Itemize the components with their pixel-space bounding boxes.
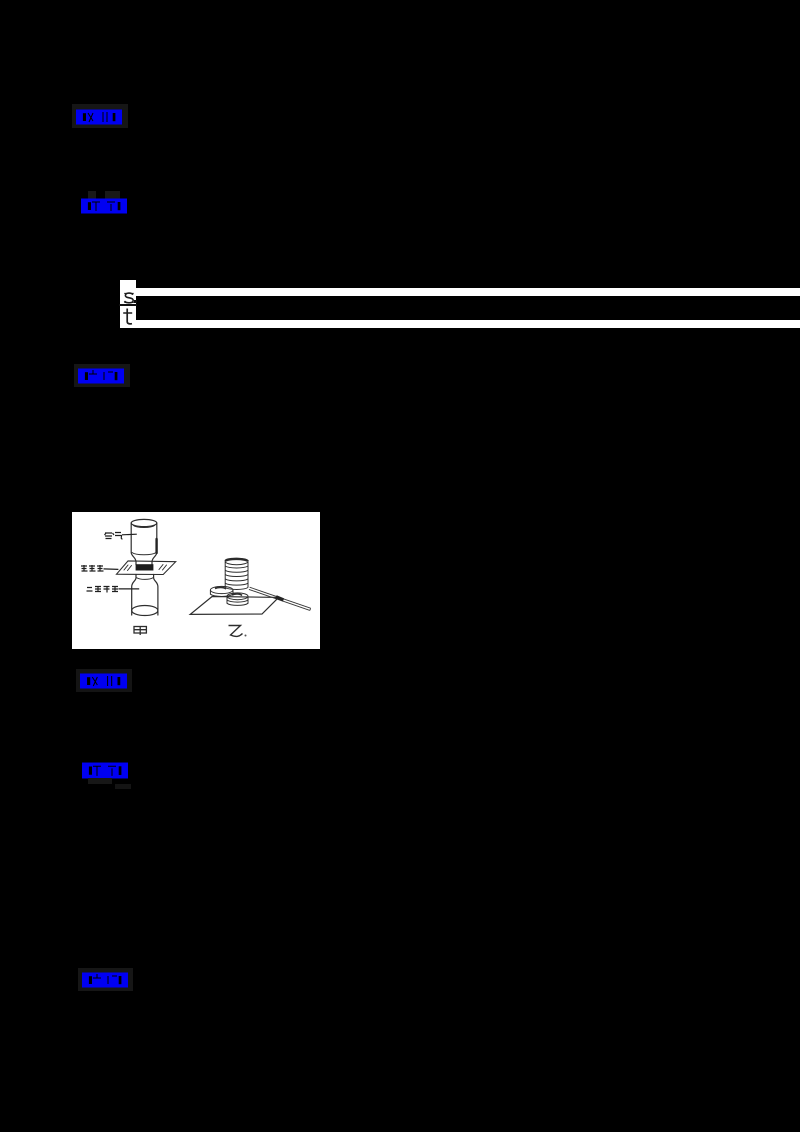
blue label 2 (解答) — [81, 198, 127, 214]
left single checker — [210, 586, 233, 596]
fraction denominator t — [122, 307, 136, 325]
label 甲 — [134, 626, 146, 635]
coin stack — [225, 558, 248, 589]
blue label 3 (点评) — [78, 368, 124, 384]
paper sheet — [190, 596, 278, 614]
blue label 1 (分析) — [76, 109, 122, 125]
label halo 1 — [72, 104, 128, 128]
label 二氧化氮 + pointer — [87, 586, 140, 593]
ruler — [249, 587, 311, 610]
artifact mark below label 5 — [88, 778, 112, 784]
top bottle (air) — [131, 519, 157, 526]
white stripe bottom (line highlight) — [136, 320, 800, 327]
bottle mouth dark band — [136, 564, 154, 570]
label 乙. — [229, 625, 247, 636]
fraction bar — [119, 304, 137, 306]
experiment figure: white image box — [72, 512, 320, 649]
label 空气 — [105, 532, 137, 539]
bottom bottle (NO2) — [132, 574, 136, 615]
label 玻璃板 + pointer — [81, 565, 118, 571]
dot after s — [134, 300, 137, 303]
artifact mark 2 below label 5 — [115, 784, 131, 789]
fraction numerator s — [122, 291, 136, 304]
lower checker stack — [227, 592, 248, 605]
equation fraction s/t : white box — [120, 280, 136, 328]
blue label 6 (点评) — [82, 972, 128, 988]
label halo 3 — [74, 364, 130, 387]
glass plate — [117, 560, 176, 574]
artifact marks above label 2 — [88, 191, 96, 199]
blue label 4 (分析) — [80, 673, 127, 689]
blue label 5 (解答) — [82, 762, 128, 779]
label halo 4 — [76, 669, 132, 692]
label halo 6 — [78, 968, 133, 991]
white stripe top (line highlight) — [136, 288, 800, 296]
